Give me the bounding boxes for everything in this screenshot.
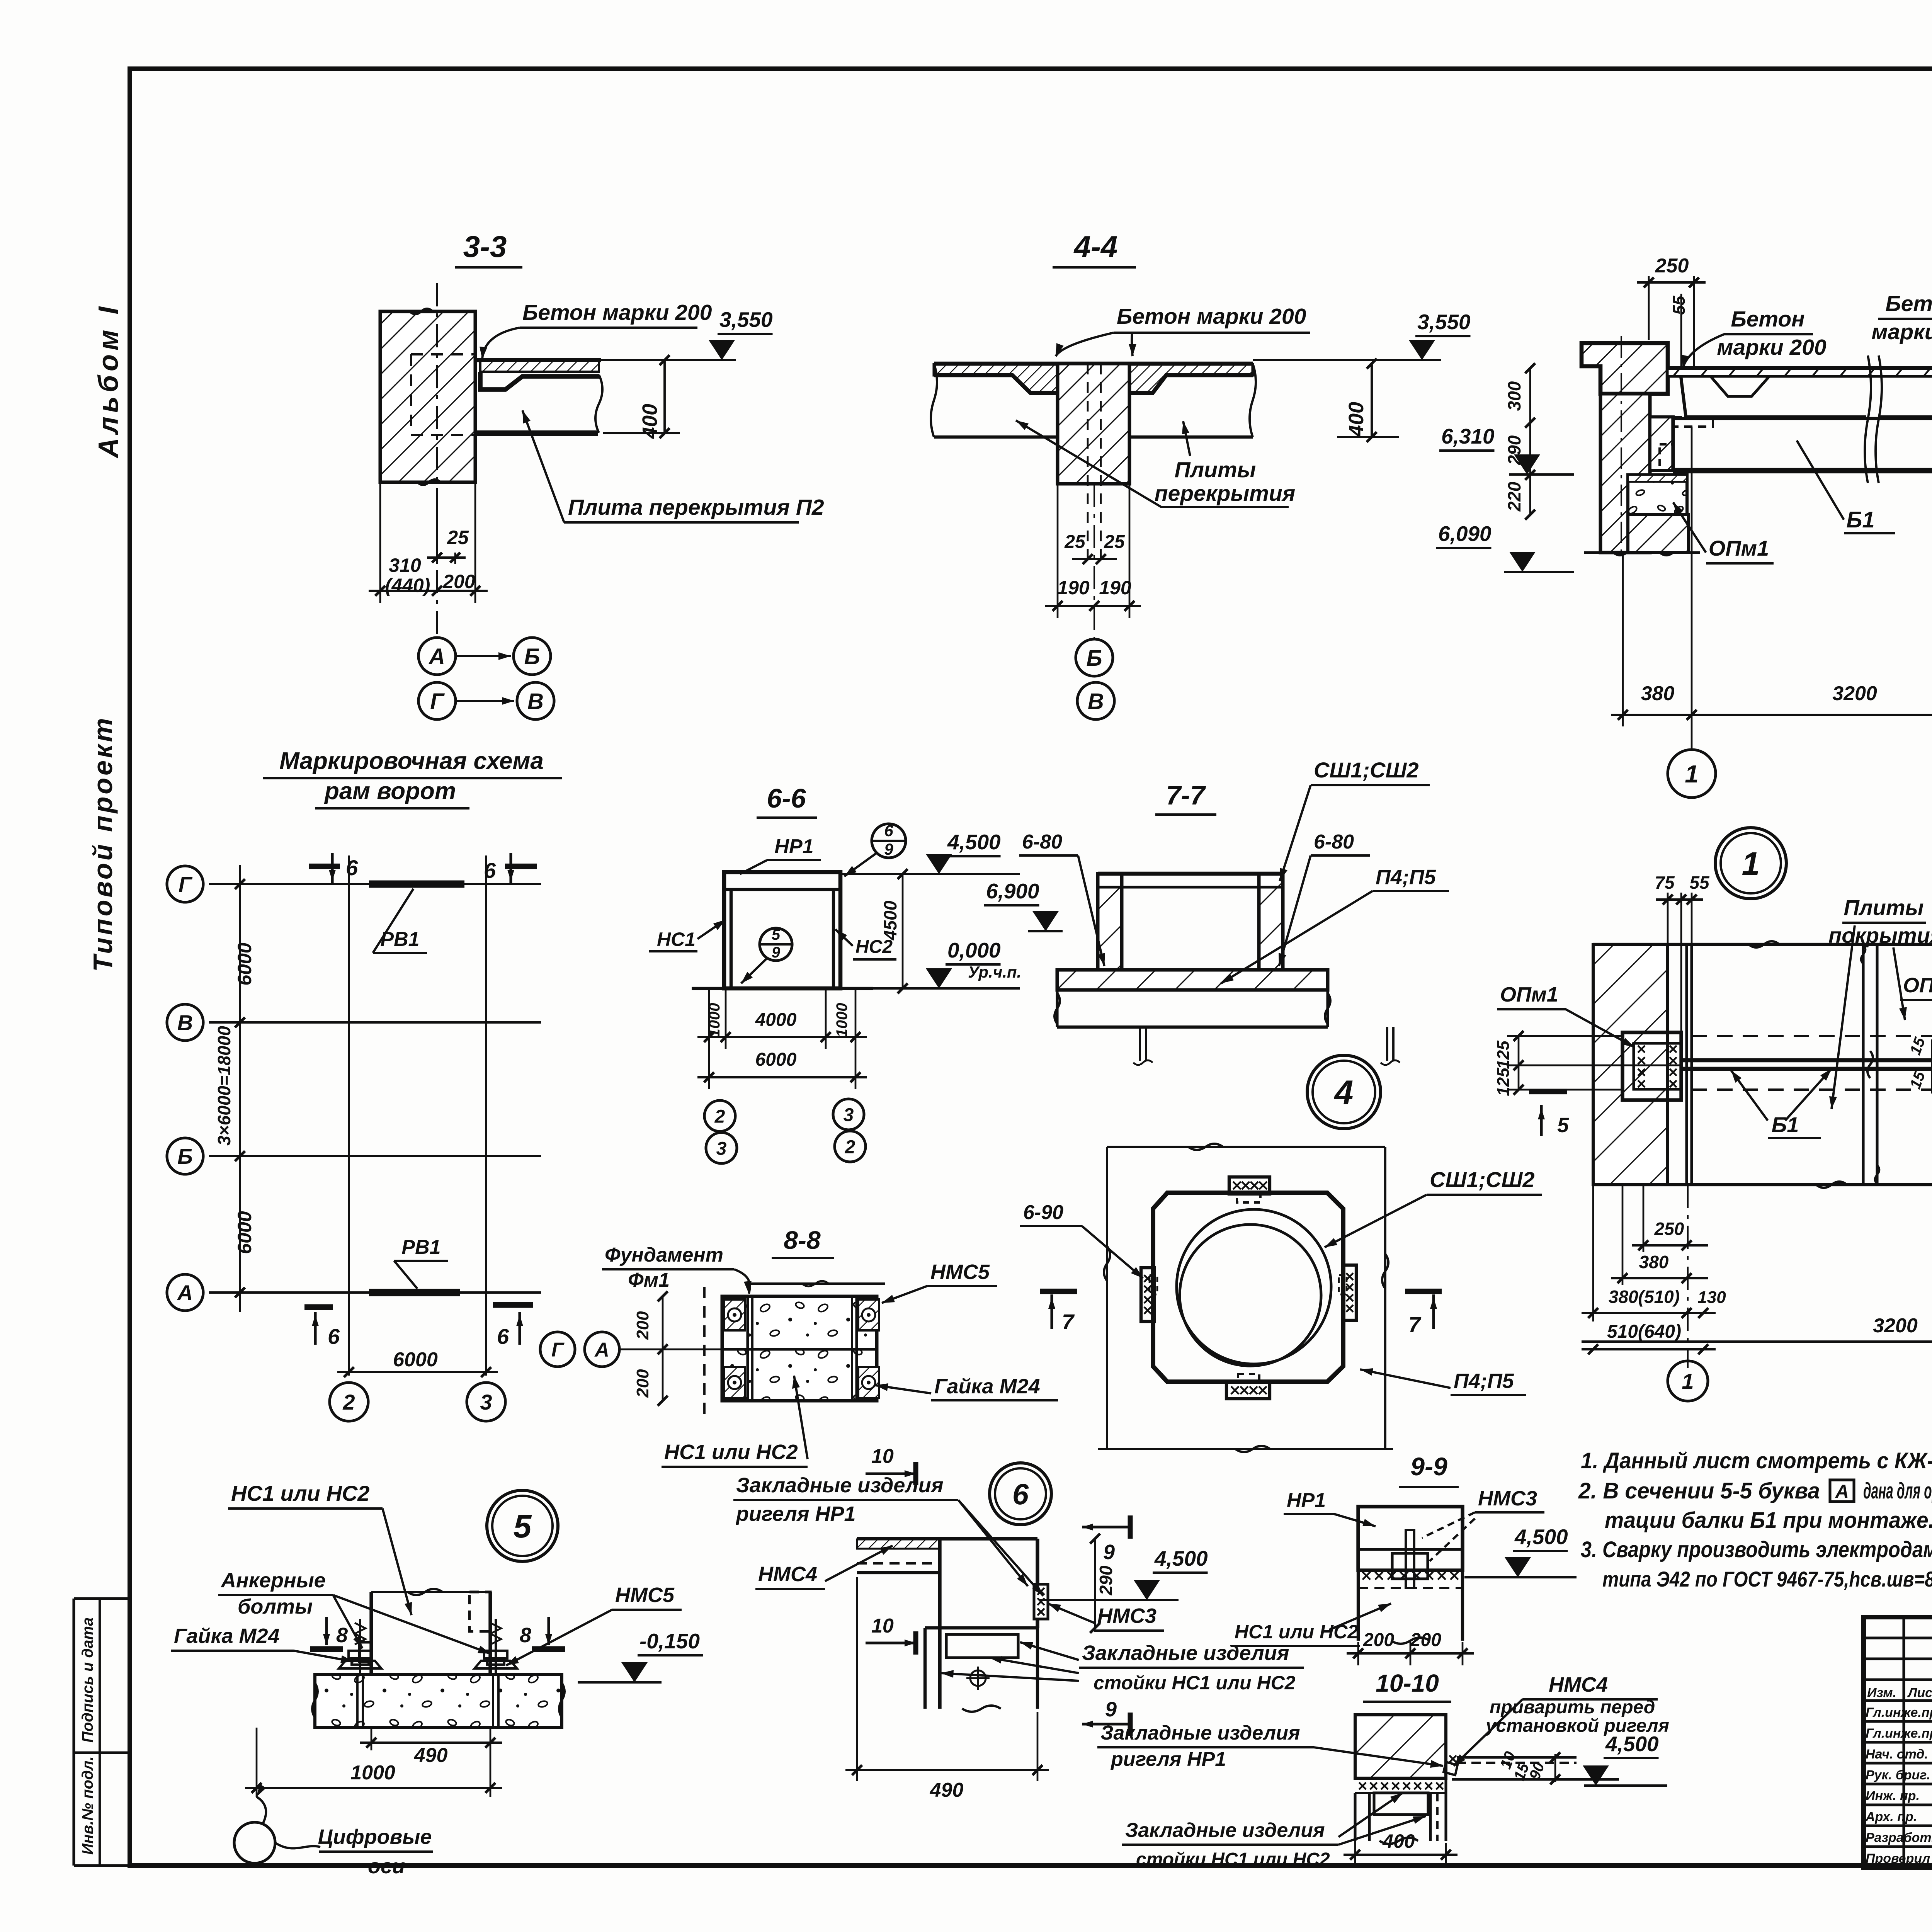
svg-text:Цифровые: Цифровые (318, 1825, 432, 1849)
4-4 slab left break (931, 364, 937, 437)
plan dims 125 125 left (1518, 1036, 1520, 1090)
svg-text:П4;П5: П4;П5 (1454, 1369, 1514, 1393)
svg-text:8-8: 8-8 (784, 1226, 821, 1254)
svg-text:тации балки Б1 при монтаже.: тации балки Б1 при монтаже. (1605, 1508, 1932, 1533)
plan axis1 embed box (1622, 1032, 1681, 1100)
plan top dims 75 55 axis1 (1667, 893, 1669, 944)
plan wall strip top line (1593, 943, 1932, 946)
svg-text:Инв.№ подл.: Инв.№ подл. (79, 1756, 96, 1855)
7-7 right leg hatched (1259, 874, 1283, 970)
svg-text:1000: 1000 (833, 1003, 850, 1037)
svg-text:200: 200 (1363, 1630, 1394, 1650)
3-3 wall axis line (436, 283, 438, 638)
svg-text:СШ1;СШ2: СШ1;СШ2 (1430, 1167, 1534, 1192)
svg-text:400: 400 (1345, 402, 1368, 437)
5-5 roof slab top line (1668, 366, 1932, 371)
svg-text:1. Данный лист смотреть с КЖ-: 1. Данный лист смотреть с КЖ-8. (1581, 1448, 1932, 1473)
plan dashed hidden lines span1 (1692, 1035, 1932, 1037)
svg-text:3: 3 (844, 1105, 854, 1125)
svg-text:1000: 1000 (350, 1762, 395, 1784)
svg-text:В: В (177, 1010, 193, 1035)
5-5 pad OPm1 axis1 (1628, 475, 1687, 515)
7-7 base slab hatched (1057, 970, 1328, 990)
svg-text:4500: 4500 (880, 900, 900, 940)
plan axis1 slab edge lines (1685, 944, 1688, 1185)
svg-text:Гл.инже.пр.: Гл.инже.пр. (1866, 1705, 1932, 1720)
scheme section mark 6 bottom-right (518, 1312, 521, 1345)
svg-text:Г: Г (430, 689, 445, 714)
6-6 axis circles 2 3 and 3 2 (704, 1100, 735, 1131)
node 6 column below (925, 1626, 1037, 1629)
svg-text:55: 55 (1670, 296, 1689, 315)
svg-text:6: 6 (884, 821, 893, 840)
svg-text:3200: 3200 (1873, 1315, 1918, 1337)
scheme gate mark RV1 bottom (369, 1289, 460, 1296)
svg-text:490: 490 (414, 1744, 448, 1767)
svg-text:9: 9 (772, 944, 781, 961)
svg-text:4000: 4000 (755, 1010, 797, 1030)
node 4 section mark 7 right (1405, 1289, 1442, 1294)
scheme axis line V (209, 1021, 541, 1024)
svg-text:ригеля НР1: ригеля НР1 (735, 1502, 856, 1526)
signature table rows (1864, 1636, 1932, 1639)
5-5 left rotated dims 300 290 220 (1529, 368, 1531, 515)
plan wall strip bottom line (1593, 1183, 1932, 1186)
6-6 circle 5/9 (760, 928, 792, 961)
svg-text:1: 1 (1742, 845, 1760, 882)
node 5 dim 490 (371, 1728, 372, 1750)
node 4 section mark 7 left (1040, 1289, 1077, 1294)
8-8 foundation plate (722, 1296, 877, 1401)
svg-text:дана для ориен-: дана для ориен- (1863, 1478, 1932, 1503)
svg-text:2: 2 (342, 1390, 355, 1414)
svg-text:9: 9 (1103, 1541, 1115, 1564)
3-3 slab topping hatched band (480, 361, 599, 372)
4-4 slab top line (934, 362, 1253, 366)
node 4 right tab (1343, 1265, 1356, 1320)
node 6 dim 490 (856, 1577, 858, 1781)
3-3 bottom dims 310 (440) 200 (379, 482, 381, 603)
svg-text:6-80: 6-80 (1022, 831, 1062, 853)
node 5 bolt embeds in foundation (356, 1675, 359, 1728)
scheme axis line B (209, 1155, 541, 1157)
plan center joint (1862, 944, 1864, 1185)
svg-text:3: 3 (480, 1390, 492, 1414)
svg-text:Типовой проект: Типовой проект (88, 716, 118, 972)
svg-text:Разработ.: Разработ. (1866, 1830, 1932, 1845)
svg-text:6-90: 6-90 (1023, 1201, 1063, 1224)
4-4 left haunch bottom thick (934, 375, 1058, 393)
6-6 frame portal (724, 872, 840, 988)
svg-text:3200: 3200 (1832, 682, 1877, 705)
node 6 section mark 9 lower (1082, 1723, 1130, 1725)
svg-text:Б: Б (177, 1144, 193, 1168)
svg-text:Рук. бриг.: Рук. бриг. (1866, 1768, 1930, 1782)
4-4 column hatched (1058, 364, 1129, 484)
svg-text:8: 8 (520, 1624, 531, 1647)
svg-text:НР1: НР1 (774, 835, 813, 858)
svg-text:3×6000=18000: 3×6000=18000 (214, 1026, 234, 1146)
node 4 plan top boundary line (1107, 1146, 1385, 1148)
svg-text:Закладные изделия: Закладные изделия (736, 1474, 944, 1497)
svg-text:8: 8 (336, 1624, 348, 1647)
svg-text:Г: Г (551, 1339, 565, 1361)
svg-text:рам ворот: рам ворот (324, 778, 456, 804)
plan bottom axis circles (1668, 1361, 1708, 1401)
svg-text:НМС5: НМС5 (930, 1260, 990, 1284)
5-5 left wall hatched (1600, 394, 1650, 553)
svg-text:Бетон марки 200: Бетон марки 200 (522, 300, 712, 325)
svg-text:НМС3: НМС3 (1478, 1487, 1537, 1510)
scheme bottom axis circles 2 3 (330, 1383, 368, 1421)
node 5 tsifrovye osi circle (234, 1822, 275, 1863)
svg-text:Нач. отд.: Нач. отд. (1866, 1747, 1928, 1762)
svg-text:6: 6 (484, 858, 496, 883)
plan bottom dims 380 axis1 (1622, 1185, 1624, 1285)
4-4 axis circle V (1077, 682, 1114, 719)
svg-text:4-4: 4-4 (1073, 230, 1118, 264)
svg-text:марки 200: марки 200 (1871, 320, 1932, 344)
5-5 span1 rib notch (1711, 376, 1769, 396)
3-3 beam end profile (480, 372, 599, 389)
svg-text:25: 25 (1104, 532, 1125, 552)
svg-text:6-6: 6-6 (767, 783, 806, 813)
svg-text:3: 3 (716, 1138, 727, 1159)
svg-text:75: 75 (1655, 872, 1675, 893)
svg-text:5: 5 (1557, 1114, 1569, 1137)
svg-text:7-7: 7-7 (1166, 780, 1206, 810)
6-6 circle 6/9 (872, 824, 906, 858)
node 5 label circle (487, 1490, 558, 1561)
3-3 axis circles A B (418, 638, 456, 675)
svg-text:6000: 6000 (234, 942, 255, 985)
left margin table (74, 1597, 130, 1600)
svg-text:НМС4: НМС4 (758, 1563, 817, 1586)
svg-text:7: 7 (1062, 1310, 1075, 1334)
node 5 foundation block (315, 1675, 562, 1728)
svg-text:Проверил: Проверил (1866, 1851, 1930, 1866)
svg-text:Плита перекрытия П2: Плита перекрытия П2 (568, 495, 824, 520)
svg-text:ОПм1: ОПм1 (1709, 536, 1769, 560)
4-4 slab topping hatched band (934, 364, 1253, 393)
svg-text:Лист: Лист (1907, 1685, 1932, 1700)
node 6 roof slab left (857, 1537, 940, 1540)
svg-text:Гайка М24: Гайка М24 (934, 1375, 1040, 1398)
4-4 dim 400 (1371, 364, 1373, 437)
node 4 left tab (1141, 1268, 1154, 1321)
plan section mark 5 left (1529, 1089, 1567, 1094)
svg-text:НМС4: НМС4 (1549, 1673, 1608, 1696)
svg-text:200: 200 (442, 571, 475, 592)
5-5 wall axis dash-dot (1621, 336, 1622, 556)
9-9 beam box (1358, 1507, 1463, 1570)
svg-text:6000: 6000 (755, 1049, 797, 1070)
svg-text:типа Э42 по ГОСТ 9467-75,hсв.ш: типа Э42 по ГОСТ 9467-75,hсв.шв=8мм. (1602, 1567, 1932, 1591)
5-5 flange soffit line (1668, 375, 1932, 378)
svg-text:200: 200 (633, 1369, 652, 1398)
svg-text:190: 190 (1099, 577, 1131, 599)
node 5 column (369, 1592, 373, 1675)
10-10 channel lines right (1457, 1756, 1577, 1759)
svg-text:5: 5 (772, 926, 781, 943)
scheme axis circles (167, 866, 203, 902)
svg-text:25: 25 (447, 527, 469, 548)
svg-text:НМС3: НМС3 (1097, 1604, 1156, 1628)
svg-text:250: 250 (1655, 255, 1689, 277)
node 5 section mark 8 left (325, 1617, 328, 1645)
svg-text:200: 200 (633, 1311, 652, 1340)
svg-text:6: 6 (328, 1324, 340, 1349)
svg-text:125: 125 (1494, 1068, 1513, 1096)
node 4 plan bottom boundary line (1098, 1448, 1393, 1450)
9-9 lower part dashed (1357, 1570, 1360, 1641)
svg-text:6: 6 (346, 855, 358, 880)
svg-text:НМС5: НМС5 (615, 1583, 675, 1607)
svg-text:Б1: Б1 (1846, 507, 1874, 532)
svg-text:ОПм1: ОПм1 (1903, 974, 1932, 997)
svg-text:стойки НС1 или НС2: стойки НС1 или НС2 (1094, 1672, 1296, 1694)
4-4 slab right break (1250, 364, 1256, 437)
node 4 plate octagon (1153, 1193, 1343, 1382)
svg-text:55: 55 (1689, 872, 1710, 893)
svg-text:ОПм1: ОПм1 (1500, 983, 1558, 1006)
svg-text:НР1: НР1 (1287, 1489, 1326, 1512)
node 6 embed plate with welds (1034, 1584, 1048, 1619)
6-6 bottom dims 1000 4000 1000 (708, 988, 710, 1089)
svg-text:3,550: 3,550 (719, 308, 773, 332)
svg-text:10: 10 (871, 1615, 894, 1637)
node 4 big circle ring (1177, 1209, 1331, 1364)
5-5 left support block hatched (1650, 417, 1673, 471)
svg-text:290: 290 (1096, 1565, 1116, 1595)
5-5 axis circles 1 2 3 (1691, 726, 1693, 750)
node 5 base detail left (359, 1642, 371, 1662)
svg-text:380: 380 (1641, 682, 1675, 705)
svg-text:Гл.инже.пр.: Гл.инже.пр. (1866, 1726, 1932, 1741)
scheme vertical dim line (239, 865, 241, 1312)
svg-text:2: 2 (714, 1106, 725, 1127)
plan bottom dims 250 axis1 (1643, 1185, 1645, 1252)
svg-text:Гайка М24: Гайка М24 (174, 1624, 280, 1648)
8-8 corner bolt plates (724, 1299, 745, 1330)
svg-text:Фм1: Фм1 (628, 1269, 670, 1291)
svg-text:Анкерные: Анкерные (220, 1569, 326, 1592)
3-3 slab break squiggle (595, 375, 602, 433)
svg-text:4,500: 4,500 (1514, 1525, 1568, 1549)
node 6 column bolt circle (970, 1670, 986, 1686)
plan bottom dim 510(640) (1582, 1348, 1716, 1350)
4-4 right haunch bottom thick (1129, 375, 1253, 393)
6-6 dim 4500 (902, 874, 904, 988)
signature table columns (1902, 1617, 1905, 1868)
svg-text:3. Сварку производить электрод: 3. Сварку производить электродами (1581, 1537, 1932, 1562)
svg-text:510(640): 510(640) (1607, 1321, 1681, 1342)
9-9 dims 200 200 (1357, 1642, 1359, 1665)
plan beam B1 lines (1681, 1058, 1932, 1063)
svg-text:4,500: 4,500 (947, 830, 1001, 854)
5-5 left cornice hatched (1582, 343, 1668, 394)
svg-text:Г: Г (179, 872, 193, 896)
svg-text:4,500: 4,500 (1605, 1732, 1659, 1756)
svg-text:НС1 или НС2: НС1 или НС2 (231, 1481, 369, 1505)
svg-text:Изм.: Изм. (1867, 1685, 1896, 1700)
8-8 inner vertical lines (746, 1296, 749, 1401)
svg-text:5: 5 (514, 1508, 532, 1544)
10-10 column hatched (1355, 1715, 1446, 1778)
scheme section mark 6 bottom-left (314, 1312, 316, 1345)
svg-text:НС1: НС1 (657, 929, 696, 950)
svg-text:6,090: 6,090 (1438, 522, 1492, 546)
5-5 roof topping hatched band (1668, 369, 1932, 376)
svg-text:300: 300 (1504, 381, 1524, 411)
svg-text:Альбом Ӏ: Альбом Ӏ (93, 303, 124, 459)
svg-text:25: 25 (1064, 532, 1086, 552)
svg-text:2. В сечении 5-5 буква: 2. В сечении 5-5 буква (1578, 1478, 1820, 1503)
svg-text:марки 200: марки 200 (1717, 335, 1827, 360)
svg-text:6-80: 6-80 (1314, 831, 1354, 853)
svg-text:6,900: 6,900 (986, 879, 1039, 903)
10-10 dim 400 (1354, 1816, 1356, 1866)
5-5 span1 plate end slopes (1681, 376, 1686, 417)
svg-text:190: 190 (1057, 577, 1090, 599)
7-7 frame top line (1098, 872, 1283, 876)
svg-text:380(510): 380(510) (1609, 1287, 1680, 1307)
svg-text:4,500: 4,500 (1154, 1546, 1208, 1570)
3-3 dim 400 vertical (663, 360, 666, 433)
3-3 wall inner dashed line (410, 354, 412, 435)
8-8 dashed axis line (703, 1287, 706, 1422)
svg-text:6: 6 (1012, 1478, 1029, 1511)
svg-text:380: 380 (1639, 1252, 1669, 1272)
5-5 center break span1 (1865, 355, 1871, 483)
node 5 section mark 8 right (547, 1617, 550, 1645)
svg-text:В: В (527, 689, 544, 714)
node 6 label circle (990, 1463, 1051, 1525)
3-3 wall hatched (380, 311, 475, 482)
scheme axis line G (209, 883, 541, 885)
svg-text:2: 2 (845, 1137, 855, 1157)
svg-text:Фундамент: Фундамент (605, 1244, 723, 1266)
5-5 left ground line (1584, 551, 1700, 554)
svg-text:болты: болты (238, 1595, 313, 1618)
svg-text:490: 490 (930, 1779, 964, 1801)
7-7 below-ground tails (1139, 1027, 1141, 1061)
svg-text:СШ1;СШ2: СШ1;СШ2 (1314, 758, 1418, 782)
5-5 pier axis1 hatched (1628, 515, 1689, 553)
svg-text:6000: 6000 (393, 1349, 438, 1371)
5-5 beam seat dashed boxes (1673, 417, 1713, 427)
svg-text:1: 1 (1682, 1369, 1694, 1393)
svg-text:6000: 6000 (234, 1211, 255, 1254)
svg-text:Ур.ч.п.: Ур.ч.п. (968, 963, 1021, 981)
svg-text:125: 125 (1494, 1041, 1513, 1069)
6-6 dim 6000 (697, 1076, 867, 1078)
svg-text:Подпись и дата: Подпись и дата (79, 1617, 96, 1743)
plan node label circle 1 (1715, 828, 1786, 899)
svg-text:Инж. пр.: Инж. пр. (1866, 1789, 1920, 1803)
8-8 axis circles G A (540, 1332, 575, 1367)
svg-text:130: 130 (1697, 1288, 1726, 1307)
scheme axis line A (209, 1291, 541, 1294)
9-9 weld row (1362, 1572, 1370, 1580)
svg-text:7: 7 (1408, 1312, 1422, 1337)
10-10 embed bracket right (1444, 1762, 1458, 1775)
6-6 ground line (692, 987, 873, 990)
scheme section mark 6 top-left (331, 853, 333, 884)
10-10 bottom plate weld (1355, 1777, 1446, 1780)
node 5 column notch right (469, 1592, 490, 1631)
svg-text:3-3: 3-3 (463, 230, 507, 264)
svg-text:Бетон: Бетон (1885, 291, 1932, 316)
scheme section mark 6 top-right (509, 853, 512, 884)
title block outer frame (1864, 1617, 1932, 1868)
svg-text:310: 310 (389, 554, 421, 576)
plan bottom dims 380(510) 130 axis1 (1592, 1185, 1594, 1321)
svg-text:Плиты: Плиты (1844, 895, 1924, 920)
5-5 beam B1 span1 (1673, 417, 1932, 420)
4-4 axis circle B (1076, 639, 1113, 676)
8-8 dims 200 200 (662, 1296, 664, 1401)
svg-text:Закладные изделия: Закладные изделия (1125, 1819, 1325, 1842)
svg-text:250: 250 (1654, 1219, 1684, 1239)
svg-text:Б1: Б1 (1772, 1112, 1799, 1137)
svg-text:Б: Б (524, 644, 540, 669)
node 4 label circle (1307, 1055, 1381, 1129)
3-3 beam bottom line (475, 430, 598, 436)
node 6 beam outline (938, 1539, 941, 1709)
svg-text:Закладные изделия: Закладные изделия (1082, 1641, 1289, 1665)
svg-text:200: 200 (1410, 1630, 1441, 1650)
4-4 column joint dashed lines (1087, 364, 1089, 559)
5-5 dim 250 top left (1648, 276, 1650, 340)
svg-text:В: В (1088, 689, 1104, 714)
5-5 span1 rib bottom chord (1686, 415, 1866, 418)
svg-text:400: 400 (1382, 1830, 1415, 1852)
svg-text:Арх. пр.: Арх. пр. (1865, 1810, 1917, 1824)
scheme grid verticals (348, 855, 350, 1376)
svg-text:1: 1 (1685, 760, 1699, 788)
node 4 plan right edge line (1384, 1147, 1386, 1449)
svg-text:Бетон: Бетон (1731, 307, 1804, 332)
scheme bottom dim 6000 (337, 1371, 498, 1373)
node 4 top tab (1229, 1177, 1270, 1194)
svg-text:Маркировочная схема: Маркировочная схема (279, 748, 544, 774)
node 5 dim 1000 (256, 1728, 258, 1797)
svg-text:220: 220 (1504, 481, 1524, 512)
svg-text:4: 4 (1334, 1073, 1354, 1112)
5-5 bottom dim chain (1622, 553, 1624, 726)
svg-text:покрытия: покрытия (1828, 923, 1932, 947)
node 6 dim 290 (1094, 1539, 1096, 1628)
svg-text:400: 400 (638, 404, 662, 439)
svg-text:9-9: 9-9 (1410, 1452, 1447, 1481)
svg-text:А: А (1835, 1481, 1849, 1502)
node 6 column inner plate (946, 1634, 1018, 1658)
svg-text:3,550: 3,550 (1417, 310, 1471, 334)
svg-text:6,310: 6,310 (1441, 424, 1495, 448)
svg-text:1000: 1000 (706, 1003, 723, 1037)
node 4 bottom tab (1226, 1382, 1270, 1399)
svg-text:А: А (594, 1339, 609, 1361)
svg-text:А: А (177, 1281, 193, 1305)
3-3 axis circles G V (418, 682, 456, 719)
svg-text:Плиты: Плиты (1175, 457, 1256, 482)
svg-text:оси: оси (368, 1855, 405, 1878)
svg-text:РВ1: РВ1 (401, 1236, 440, 1259)
svg-text:(440): (440) (385, 575, 430, 596)
svg-text:перекрытия: перекрытия (1155, 481, 1296, 506)
9-9 central pin (1406, 1530, 1414, 1588)
